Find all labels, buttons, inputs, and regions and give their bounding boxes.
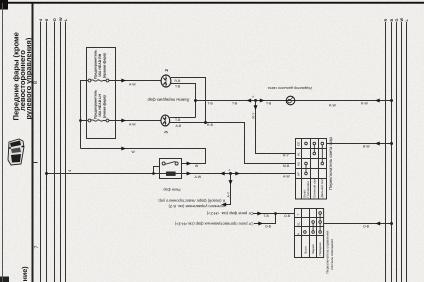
svg-text:R-W: R-W xyxy=(329,103,337,107)
svg-text:T-B: T-B xyxy=(264,214,270,218)
svg-text:Дальний свет: Дальний свет xyxy=(320,177,324,197)
svg-text:T-B: T-B xyxy=(266,102,272,106)
svg-text:Выкл.: Выкл. xyxy=(304,246,308,254)
svg-text:15А HEAD RH: 15А HEAD RH xyxy=(98,53,102,77)
svg-text:Лампы передних фар: Лампы передних фар xyxy=(147,98,190,103)
svg-text:Индикатор дальнего света: Индикатор дальнего света xyxy=(268,86,312,90)
svg-text:К (левой) фаре левостороннего: К (левой) фаре левостороннего упр. xyxy=(157,199,225,204)
svg-text:D: D xyxy=(53,18,57,21)
svg-text:O-B: O-B xyxy=(363,225,370,229)
svg-text:M-B: M-B xyxy=(283,164,290,168)
svg-text:15А HEAD LH: 15А HEAD LH xyxy=(98,94,102,117)
svg-text:H: H xyxy=(297,233,301,235)
svg-text:T-B: T-B xyxy=(175,85,181,89)
svg-text:Предохранитель: Предохранитель xyxy=(94,50,98,79)
svg-text:HL: HL xyxy=(297,152,301,156)
svg-text:A-B: A-B xyxy=(176,124,182,128)
svg-text:Реле фар: Реле фар xyxy=(163,187,180,191)
svg-text:R-W: R-W xyxy=(361,102,369,106)
svg-text:A-W: A-W xyxy=(283,174,290,178)
svg-text:G: G xyxy=(395,19,399,22)
svg-text:T-B: T-B xyxy=(208,102,214,106)
svg-text:От реле фар (см. <Н-2>): От реле фар (см. <Н-2>) xyxy=(206,211,253,216)
svg-text:T-B: T-B xyxy=(232,102,238,106)
svg-text:HF: HF xyxy=(297,172,301,176)
svg-text:Заднее: Заднее xyxy=(311,244,315,254)
svg-text:8: 8 xyxy=(45,19,49,21)
svg-text:л: л xyxy=(229,168,231,172)
svg-text:(левая фара): (левая фара) xyxy=(103,95,107,118)
svg-text:Переключатель света фар: Переключатель света фар xyxy=(328,136,333,190)
svg-text:рулевого управления (см. А-2): рулевого управления (см. А-2) xyxy=(168,204,225,209)
svg-text:От реле противотуманных фар (с: От реле противотуманных фар (см.<Н-3>) xyxy=(174,222,253,227)
svg-text:R-Y: R-Y xyxy=(283,154,290,158)
svg-text:Ближний свет: Ближний свет xyxy=(313,177,317,197)
svg-text:R-B: R-B xyxy=(175,79,182,83)
svg-text:O-B: O-B xyxy=(284,214,291,218)
svg-text:Предохранитель: Предохранитель xyxy=(94,90,98,119)
svg-text:B-W: B-W xyxy=(363,145,370,149)
svg-text:R-Y: R-Y xyxy=(251,112,255,119)
svg-text:л: л xyxy=(252,94,254,98)
svg-text:O-B: O-B xyxy=(265,225,272,229)
svg-text:B: B xyxy=(390,19,394,22)
svg-text:A-W: A-W xyxy=(129,122,136,126)
svg-text:R-B: R-B xyxy=(207,123,214,127)
svg-text:Положение: Положение xyxy=(306,181,310,198)
svg-text:T: T xyxy=(297,214,301,216)
svg-text:A-W: A-W xyxy=(195,175,202,179)
svg-text:Переднее: Переднее xyxy=(318,242,322,256)
svg-text:EL: EL xyxy=(297,221,301,225)
svg-text:системы освещения: системы освещения xyxy=(330,239,334,270)
svg-text:рулевого управления): рулевого управления) xyxy=(24,37,33,119)
svg-text:A-W: A-W xyxy=(129,83,136,87)
svg-text:8: 8 xyxy=(33,81,39,84)
svg-text:R: R xyxy=(384,19,388,22)
svg-text:W: W xyxy=(400,18,404,22)
svg-text:W: W xyxy=(59,17,63,21)
svg-text:A-Y: A-Y xyxy=(226,191,230,197)
svg-text:7: 7 xyxy=(34,246,40,249)
svg-text:T-B: T-B xyxy=(175,118,181,122)
svg-text:ние): ние) xyxy=(20,266,29,282)
svg-text:(правая фара): (правая фара) xyxy=(103,53,107,78)
svg-text:HU: HU xyxy=(297,162,301,166)
